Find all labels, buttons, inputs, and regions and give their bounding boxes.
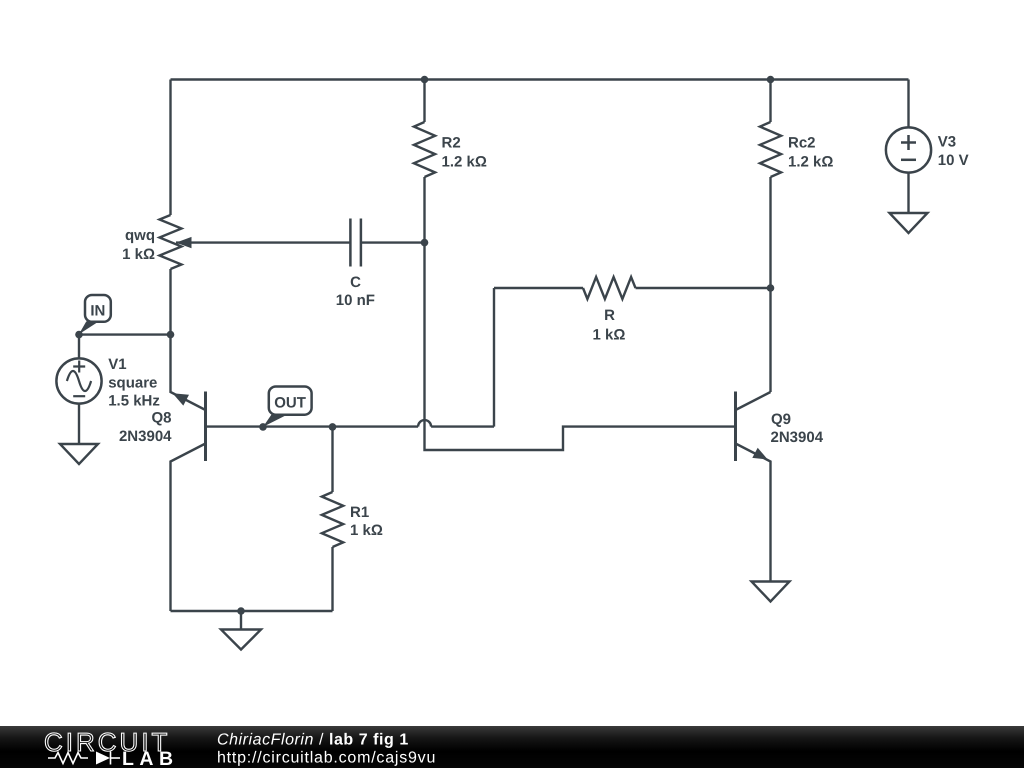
- svg-text:10 nF: 10 nF: [336, 292, 375, 309]
- svg-text:R2: R2: [442, 134, 461, 151]
- svg-text:http://circuitlab.com/cajs9vu: http://circuitlab.com/cajs9vu: [217, 749, 436, 766]
- svg-text:1 kΩ: 1 kΩ: [593, 327, 626, 344]
- svg-text:Q8: Q8: [151, 410, 171, 427]
- svg-text:ChiriacFlorin / lab 7 fig 1: ChiriacFlorin / lab 7 fig 1: [217, 732, 409, 749]
- svg-text:IN: IN: [90, 303, 105, 320]
- svg-text:C: C: [350, 274, 361, 291]
- svg-text:LAB: LAB: [122, 748, 179, 768]
- svg-text:1 kΩ: 1 kΩ: [122, 246, 155, 263]
- svg-text:V3: V3: [938, 134, 956, 151]
- svg-text:qwq: qwq: [125, 227, 155, 244]
- svg-text:R1: R1: [350, 504, 369, 521]
- svg-text:1.2 kΩ: 1.2 kΩ: [788, 154, 833, 171]
- svg-text:Q9: Q9: [771, 411, 791, 428]
- svg-text:R: R: [604, 307, 615, 324]
- svg-text:OUT: OUT: [274, 395, 306, 412]
- svg-text:1.5 kHz: 1.5 kHz: [108, 393, 160, 410]
- svg-text:1.2 kΩ: 1.2 kΩ: [442, 154, 487, 171]
- svg-text:1 kΩ: 1 kΩ: [350, 522, 383, 539]
- svg-text:2N3904: 2N3904: [771, 429, 824, 446]
- svg-text:V1: V1: [108, 356, 126, 373]
- svg-text:Rc2: Rc2: [788, 134, 816, 151]
- svg-text:10 V: 10 V: [938, 152, 969, 169]
- svg-text:square: square: [108, 374, 157, 391]
- svg-text:2N3904: 2N3904: [119, 428, 172, 445]
